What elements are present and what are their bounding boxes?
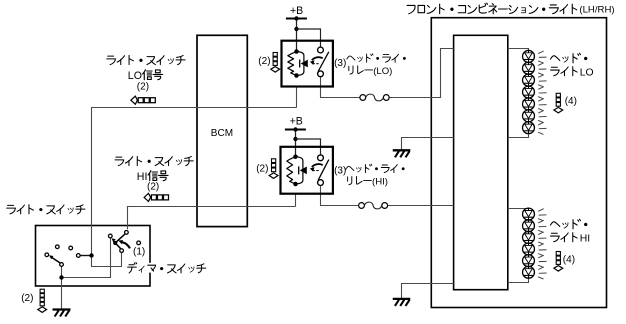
svg-text:+B: +B [290, 5, 303, 17]
svg-text:(4): (4) [563, 255, 575, 266]
svg-text:(3): (3) [334, 165, 346, 176]
svg-text:BCM: BCM [211, 128, 233, 139]
svg-text:(1): (1) [133, 247, 145, 258]
svg-text:(3): (3) [334, 58, 346, 69]
svg-text:HI: HI [580, 234, 590, 245]
svg-text:(2): (2) [258, 56, 270, 67]
svg-text:(LH/RH): (LH/RH) [579, 5, 614, 16]
svg-text:(LO): (LO) [373, 66, 392, 77]
svg-text:(2): (2) [21, 293, 33, 304]
svg-text:(2): (2) [147, 182, 159, 193]
svg-text:(HI): (HI) [372, 177, 388, 188]
svg-text:LO: LO [128, 70, 142, 82]
svg-text:HI: HI [137, 171, 148, 183]
svg-text:(2): (2) [256, 164, 268, 175]
svg-text:(2): (2) [137, 82, 149, 93]
svg-text:+B: +B [290, 115, 303, 127]
svg-text:LO: LO [580, 68, 594, 79]
svg-text:(4): (4) [565, 96, 577, 107]
